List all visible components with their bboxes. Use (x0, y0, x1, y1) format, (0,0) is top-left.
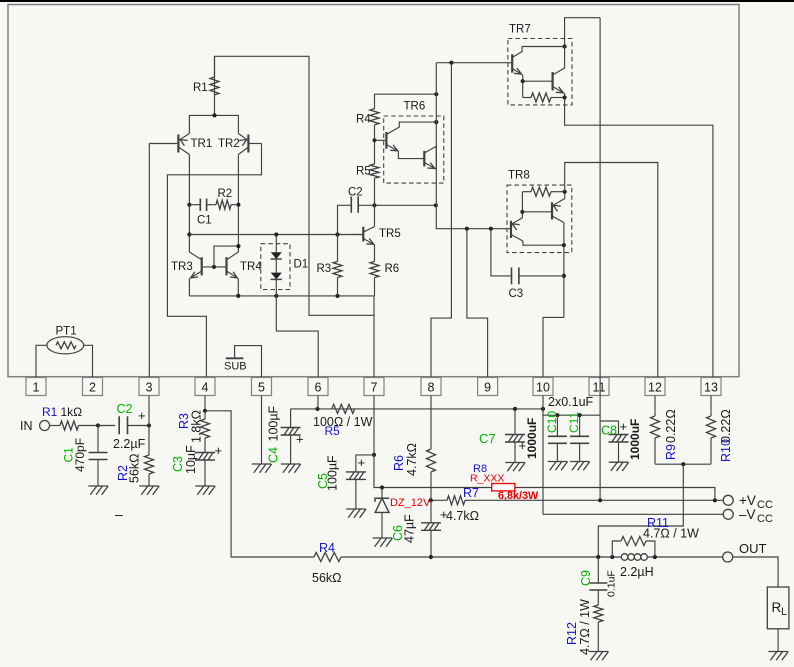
transistor TR3 (201, 257, 203, 275)
svg-text:CC: CC (757, 513, 773, 525)
svg-text:R4: R4 (356, 114, 371, 126)
wire TR2 collector vertical (237, 155, 239, 253)
resistor R4 (internal) (375, 94, 437, 109)
svg-text:C7: C7 (479, 431, 496, 446)
svg-text:1000uF: 1000uF (628, 419, 642, 460)
svg-text:0.22Ω: 0.22Ω (719, 409, 733, 443)
resistor R9 0.22 (654, 396, 656, 417)
svg-text:100Ω / 1W: 100Ω / 1W (313, 415, 373, 429)
svg-text:TR8: TR8 (508, 170, 530, 182)
resistor R5 (internal) (372, 138, 376, 142)
capacitor C9 0.1uF (597, 557, 599, 583)
svg-text:+: + (620, 419, 628, 434)
svg-text:2.2µH: 2.2µH (620, 565, 654, 579)
svg-text:R1: R1 (193, 82, 208, 94)
svg-text:+: + (138, 408, 146, 423)
wire zener bias rail (374, 455, 715, 501)
resistor R2 56k (148, 426, 150, 456)
node R9/R10 junction (681, 462, 685, 466)
wire TR1 base to pin 3 (148, 144, 150, 378)
node rail to TR5 base (187, 232, 191, 236)
-Vcc terminal (723, 509, 733, 519)
wire TR8 collector to pin 10 (563, 245, 565, 317)
wire TR1/TR2 emitter rail (189, 115, 238, 133)
wire -Vcc filter rail (291, 408, 543, 410)
svg-text:C2: C2 (117, 402, 133, 416)
resistor TR7 emitter (internal) (522, 81, 524, 97)
top border line (0, 0, 794, 2)
input terminal IN (40, 421, 50, 431)
svg-text:L: L (781, 606, 787, 618)
capacitor C2 2.2uF (98, 425, 115, 427)
svg-text:11: 11 (593, 381, 606, 395)
svg-text:1kΩ: 1kΩ (61, 405, 83, 419)
resistor R3 1.8k (204, 411, 206, 419)
resistor R1 (internal) (210, 77, 219, 95)
IC pin boxes 1-13 (26, 378, 46, 396)
output terminal OUT (723, 552, 733, 562)
transistor TR6 output (423, 151, 425, 167)
svg-text:R9: R9 (664, 444, 678, 460)
svg-text:56kΩ: 56kΩ (312, 571, 342, 585)
wire rail TR3 collector to TR5 base (189, 234, 363, 236)
svg-text:C8: C8 (601, 424, 617, 438)
resistor TR8 emitter (internal) (521, 192, 523, 212)
svg-text:100µF: 100µF (326, 455, 340, 491)
svg-text:TR4: TR4 (240, 261, 262, 273)
node pin4 / R3 / feedback (204, 396, 206, 411)
wire feedback from pin 4 (205, 411, 314, 557)
wire pin 10 column to -Vcc (542, 396, 544, 515)
svg-text:100µF: 100µF (267, 405, 281, 441)
wire TR8 base node to pin 9 (467, 229, 488, 377)
transistor TR6 driver (385, 132, 387, 149)
wire TR1 collector vertical (188, 155, 190, 253)
wire pin 8 external / resistor R6 4.7k (430, 396, 432, 450)
wire TR6 top to TR7 base (436, 62, 512, 64)
node R1/C1/C2 (96, 423, 100, 427)
transistor TR7 output (523, 80, 553, 82)
svg-text:10: 10 (536, 381, 550, 395)
svg-text:TR6: TR6 (404, 101, 426, 113)
resistor R4 56k feedback (314, 553, 341, 562)
zener diode DZ_12V (380, 485, 384, 489)
svg-text:R7: R7 (463, 486, 479, 500)
svg-text:R6: R6 (385, 263, 400, 275)
wire bottom emitter rail (189, 295, 374, 297)
svg-text:12: 12 (648, 381, 662, 395)
svg-text:–: – (115, 506, 123, 522)
node R1 bottom junction (214, 95, 216, 116)
capacitor C8 1000uF (600, 421, 618, 435)
svg-text:5: 5 (258, 381, 265, 395)
resistor R5 100ohm 1W (332, 404, 355, 413)
capacitor C6 47uF (430, 500, 432, 523)
svg-text:C2: C2 (348, 187, 363, 199)
capacitor C1 470pF (97, 426, 99, 453)
node pin3/C2/R2 (147, 423, 151, 427)
svg-text:+: + (358, 455, 366, 470)
capacitor C5 100uF (356, 455, 374, 472)
svg-text:R_XXX: R_XXX (470, 473, 504, 485)
resistor R3 (internal) (335, 232, 339, 236)
svg-text:R5: R5 (356, 166, 371, 178)
svg-text:4.7Ω / 1W: 4.7Ω / 1W (578, 599, 592, 655)
transistor TR7 driver (511, 54, 513, 72)
svg-text:R6: R6 (392, 455, 406, 471)
wire output row (431, 556, 723, 558)
svg-text:–V: –V (739, 507, 756, 522)
resistor R11 4.7ohm parallel (612, 541, 621, 557)
darlington TR8 dashed box (507, 185, 572, 253)
svg-text:13: 13 (704, 381, 718, 395)
svg-text:6,8k/3W: 6,8k/3W (498, 490, 539, 502)
wire output node feed (598, 464, 683, 557)
svg-text:DZ_12V: DZ_12V (390, 497, 431, 509)
wire C2 row to TR6 column (375, 204, 436, 206)
resistor R12 4.7ohm (594, 605, 603, 622)
capacitor C3 10uF electrolytic (195, 452, 215, 454)
svg-text:C1: C1 (197, 215, 212, 227)
svg-text:PT1: PT1 (56, 326, 77, 338)
svg-text:D1: D1 (294, 259, 309, 271)
svg-text:4.7Ω / 1W: 4.7Ω / 1W (643, 527, 699, 541)
svg-text:C11: C11 (567, 412, 581, 433)
wire TR4 base-collector tie (214, 246, 238, 267)
svg-text:0.1uF: 0.1uF (606, 570, 618, 597)
svg-text:+V: +V (739, 493, 756, 508)
substrate SUB symbol to pin 5 (235, 346, 262, 377)
svg-text:CC: CC (757, 499, 773, 511)
capacitor C2 (internal) (338, 205, 352, 234)
svg-text:C9: C9 (579, 570, 593, 586)
svg-text:C3: C3 (509, 288, 524, 300)
svg-text:1: 1 (33, 381, 40, 395)
diode D1 bottom (275, 259, 277, 273)
svg-text:6: 6 (315, 381, 322, 395)
svg-text:TR2: TR2 (218, 138, 240, 150)
capacitor C11 (579, 415, 581, 436)
svg-text:4: 4 (202, 381, 209, 395)
svg-text:IN: IN (20, 419, 33, 433)
transistor TR1 (177, 135, 179, 153)
wire D1 to pin 6 (276, 296, 318, 377)
transistor TR8 output (522, 211, 552, 213)
thermal sensor PT1 (36, 345, 47, 377)
wire pin 7 external (373, 396, 375, 455)
svg-text:47µF: 47µF (403, 514, 417, 543)
transistor TR2 (247, 135, 249, 153)
svg-text:SUB: SUB (224, 361, 247, 373)
svg-text:1000uF: 1000uF (525, 418, 539, 459)
svg-text:7: 7 (371, 381, 378, 395)
node A pin7/C5 (372, 453, 376, 457)
svg-text:R3: R3 (317, 263, 332, 275)
wire R1 top rail (215, 56, 375, 315)
wire TR7 base node to pin 8 (431, 63, 451, 377)
node R6/R7/C6 (429, 498, 433, 502)
capacitor C4 100uF (290, 409, 292, 428)
diode pair D1 dashed box (261, 244, 290, 290)
resistor R6 (internal) (374, 245, 376, 262)
darlington TR7 dashed box (508, 39, 572, 105)
inductor 2.2uH (621, 554, 628, 561)
svg-text:1.8kΩ: 1.8kΩ (190, 410, 204, 443)
svg-text:9: 9 (484, 381, 491, 395)
wire TR6 bottom row to TR8 base (436, 227, 511, 230)
resistor R1 1k (50, 425, 60, 427)
svg-text:2.2µF: 2.2µF (113, 437, 146, 451)
svg-text:TR3: TR3 (171, 261, 193, 273)
wire TR6 collector column (435, 63, 437, 228)
svg-text:2: 2 (89, 381, 96, 395)
transistor TR4 (225, 257, 227, 275)
capacitor C1 (internal) and resistor R2 (internal) row (187, 203, 191, 207)
svg-text:C3: C3 (171, 456, 185, 472)
darlington TR6 dashed box (384, 116, 444, 183)
capacitor C7 1000uF (514, 409, 516, 435)
svg-text:R1: R1 (42, 405, 58, 419)
IC package outline (8, 5, 739, 377)
resistor R10 0.22 (710, 396, 712, 417)
resistor R7 4.7k (431, 499, 447, 501)
svg-text:TR1: TR1 (191, 138, 213, 150)
wire TR7 emitter to pin 13 (565, 98, 713, 378)
wire pin 5 to ground (261, 396, 263, 465)
svg-text:+: + (296, 432, 304, 447)
svg-text:8: 8 (428, 381, 435, 395)
svg-text:+: + (215, 443, 223, 458)
svg-text:R4: R4 (319, 541, 335, 555)
wire pin 11 column (599, 18, 601, 501)
svg-text:56kΩ: 56kΩ (128, 454, 142, 484)
svg-text:R2: R2 (218, 188, 233, 200)
wire pin 7 column (373, 296, 375, 377)
wire pin 6 (317, 396, 319, 409)
svg-text:R12: R12 (565, 622, 579, 645)
diode D1 top (274, 232, 278, 236)
svg-text:470pF: 470pF (73, 438, 87, 472)
+Vcc terminal (723, 495, 733, 505)
capacitor C3 (internal) (491, 229, 512, 276)
capacitor C10 (556, 415, 558, 436)
wire TR8 top node to pin 12 (565, 163, 658, 378)
wire TR7 collector to pin 11 column (565, 18, 601, 47)
svg-text:C4: C4 (267, 447, 281, 463)
wire +Vcc row (600, 499, 723, 501)
svg-text:OUT: OUT (739, 541, 767, 556)
svg-text:2x0.1uF: 2x0.1uF (548, 395, 594, 409)
svg-text:R5: R5 (325, 424, 341, 438)
svg-text:3: 3 (146, 381, 153, 395)
svg-text:10µF: 10µF (184, 445, 198, 474)
svg-text:4.7kΩ: 4.7kΩ (446, 509, 479, 523)
load resistor RL (733, 557, 778, 587)
svg-text:TR5: TR5 (379, 228, 401, 240)
transistor TR8 driver (510, 221, 512, 238)
wire TR2 base loop to pin 4 (167, 144, 261, 378)
wire -Vcc row (543, 513, 723, 515)
transistor TR5 (372, 203, 376, 207)
svg-text:TR7: TR7 (509, 24, 531, 36)
svg-text:0.22Ω: 0.22Ω (664, 409, 678, 443)
svg-text:C10: C10 (545, 411, 559, 433)
svg-text:R: R (772, 600, 782, 615)
svg-text:4.7kΩ: 4.7kΩ (405, 443, 419, 476)
